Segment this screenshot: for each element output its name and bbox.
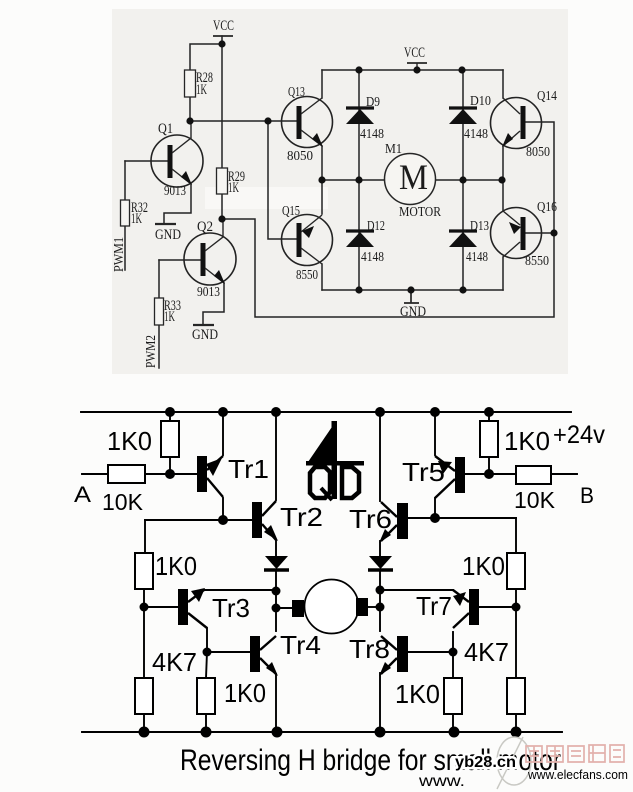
wire Q16 emitter up [502, 180, 504, 211]
ground GND of bridge [400, 290, 426, 320]
wire VCC stub to R28 [190, 36, 222, 70]
wire Tr4 base lead [207, 651, 250, 653]
wire Tr8 emitter to rail [379, 673, 381, 732]
resistor 10K input B [514, 466, 556, 513]
transistor Tr8 [349, 634, 408, 676]
watermark circle [497, 737, 531, 785]
svg-text:D13: D13 [470, 219, 489, 234]
wire Tr6 base line [408, 517, 516, 519]
transistor Q2 9013 [184, 219, 236, 300]
resistor 1K0 left outer [135, 551, 197, 589]
svg-text:1K: 1K [196, 82, 207, 98]
transistor Q15 8550 [282, 204, 333, 283]
svg-text:Tr3: Tr3 [212, 593, 250, 623]
wire down to right outer 1K0 [515, 518, 517, 553]
transistor Tr7 [416, 589, 479, 628]
svg-text:Q1: Q1 [158, 121, 173, 137]
VCC supply top-left [213, 18, 234, 36]
wire diode to motor node right [379, 571, 381, 631]
wire Tr6 collector to rail [379, 412, 381, 501]
wire diode D12 branch [358, 180, 360, 290]
wire diode D9 branch [358, 70, 360, 180]
svg-text:1K0: 1K0 [224, 678, 266, 708]
wire +24v top rail [81, 411, 571, 413]
svg-text:M: M [399, 157, 428, 197]
svg-text:+24v: +24v [553, 421, 605, 449]
wire Q14 collector [502, 70, 504, 98]
resistor 1K0 mid right [395, 678, 462, 714]
svg-text:D10: D10 [470, 94, 491, 109]
wire mid-right 1K0 column [452, 652, 454, 732]
svg-text:VCC: VCC [213, 18, 234, 34]
node junction dots of bottom schematic [139, 407, 522, 738]
diode right [368, 556, 393, 570]
resistor R33 1K [155, 298, 182, 325]
diode D10 4148 [449, 94, 491, 142]
motor M1 [385, 142, 442, 220]
faded watermark patch [205, 187, 328, 209]
svg-text:PWM1: PWM1 [112, 237, 127, 272]
resistor 1K0 left bias [107, 421, 179, 457]
wire Q1 emitter to ground [164, 184, 191, 224]
wire input A to Tr1 base [82, 473, 197, 475]
svg-text:www.elecfans.com: www.elecfans.com [527, 767, 628, 782]
transistor Q13 8050 [282, 85, 333, 164]
svg-text:VCC: VCC [404, 45, 425, 61]
wire Q2 collector to right bases net [223, 122, 554, 317]
svg-text:1K: 1K [228, 180, 239, 196]
svg-text:Tr5: Tr5 [402, 457, 445, 487]
wire Tr2 emitter to diode [275, 540, 277, 556]
wire node to Q15 base [268, 121, 297, 239]
wire bottom 0v rail [82, 731, 562, 733]
watermark red glyphs [526, 745, 624, 762]
diode D13 4148 [449, 219, 489, 265]
svg-text:Q13: Q13 [288, 85, 305, 100]
transistor Tr3 [178, 588, 250, 628]
svg-text:D9: D9 [366, 95, 380, 110]
svg-text:M1: M1 [385, 142, 402, 157]
wire mid-left 1K0 column [206, 652, 207, 732]
svg-text:1K0: 1K0 [462, 551, 505, 581]
svg-text:10K: 10K [514, 487, 556, 513]
svg-text:1K0: 1K0 [107, 426, 152, 456]
wire Tr6 emitter to diode [379, 541, 381, 556]
wire Q13 emitter to left motor rail [321, 146, 323, 180]
wire Q13 collector [321, 70, 323, 98]
svg-text:Q2: Q2 [197, 219, 213, 235]
wire Q2 emitter to ground [203, 283, 224, 325]
svg-text:Tr8: Tr8 [349, 634, 390, 664]
wire diode to motor node left [275, 571, 277, 631]
svg-text:yb28.cn: yb28.cn [455, 754, 516, 771]
resistor 1K0 mid left [197, 678, 266, 714]
resistor 4K7 left [135, 647, 197, 714]
svg-text:Tr7: Tr7 [416, 591, 452, 621]
svg-text:A: A [74, 482, 91, 507]
svg-text:8050: 8050 [526, 145, 550, 160]
wire VCC node down to R29 [221, 44, 223, 168]
wire rail to right bias 1K0 [488, 412, 490, 474]
svg-text:GND: GND [192, 327, 218, 343]
resistor R28 1K [185, 70, 214, 98]
svg-text:4148: 4148 [464, 127, 488, 142]
diode D9 4148 [346, 95, 384, 142]
svg-text:Tr4: Tr4 [280, 630, 321, 660]
svg-text:Tr1: Tr1 [228, 454, 269, 484]
ground GND of Q1 [155, 224, 181, 243]
wire right 4K7 to rail [515, 714, 517, 732]
wire R28 to Q1 collector node [189, 97, 191, 121]
svg-text:9013: 9013 [164, 184, 186, 199]
ground GND of Q2 [192, 325, 218, 343]
wire Tr7 collector line [380, 589, 453, 591]
svg-text:4148: 4148 [466, 250, 488, 265]
svg-text:4148: 4148 [361, 250, 384, 265]
wire Tr2 collector to rail [275, 412, 277, 500]
motor [292, 580, 368, 634]
transistor Q16 8550 [491, 200, 558, 269]
svg-text:1K: 1K [164, 309, 175, 325]
svg-text:Q14: Q14 [537, 89, 557, 104]
transistor Q14 8050 [491, 89, 558, 160]
diode D12 4148 [346, 219, 385, 265]
svg-text:8550: 8550 [296, 268, 318, 283]
wire Tr7 emitter down [452, 632, 454, 652]
wire right outer column [515, 589, 517, 678]
wire left outer column [143, 589, 145, 678]
svg-text:Q15: Q15 [282, 204, 300, 219]
resistor 4K7 right [464, 637, 525, 714]
svg-text:Tr6: Tr6 [349, 504, 392, 534]
resistor 10K input A [102, 465, 145, 515]
wire Tr3 emitter down [206, 628, 208, 652]
wire Tr3 collector line [203, 589, 276, 591]
wire R29 to Q2 collector node [221, 193, 223, 219]
diode left [264, 556, 289, 570]
svg-text:MOTOR: MOTOR [399, 205, 442, 220]
svg-text:8550: 8550 [525, 254, 549, 269]
svg-text:9013: 9013 [197, 285, 220, 300]
transistor Tr5 [402, 456, 465, 498]
svg-text:1K0: 1K0 [395, 679, 440, 709]
wire bottom GND rail of bridge [322, 289, 503, 291]
svg-text:GND: GND [400, 304, 426, 320]
wire R33 to PWM2 input [158, 325, 160, 368]
wire Tr1 collector down [222, 498, 224, 520]
wire Q16 base lead [525, 232, 554, 234]
wire diode D13 branch [462, 180, 464, 290]
wire Tr2 base line [145, 519, 252, 521]
svg-text:4K7: 4K7 [464, 637, 509, 667]
node junction dots of top schematic [186, 40, 557, 293]
wire left 4K7 to rail [143, 714, 145, 732]
resistor 1K0 right outer [462, 551, 525, 589]
transistor Q1 9013 [151, 121, 203, 199]
wire motor node to left pad [276, 607, 292, 609]
svg-text:Q16: Q16 [537, 200, 557, 215]
svg-text:4148: 4148 [360, 127, 384, 142]
wire diode D10 branch [462, 70, 464, 180]
svg-text:8050: 8050 [287, 149, 313, 164]
wire Q1 base lead [125, 160, 168, 162]
wire left motor rail [322, 179, 384, 181]
resistor R32 1K [121, 200, 149, 227]
scan background of top schematic [112, 9, 568, 374]
wire Tr5 emitter to rail [434, 412, 436, 455]
wire Tr4 emitter to rail [275, 674, 277, 732]
svg-text:www.: www. [418, 773, 465, 790]
transistor Tr2 [252, 501, 323, 541]
wire Tr1 emitter to rail [222, 412, 224, 455]
wire Tr7 base lead [479, 606, 516, 608]
svg-text:GND: GND [155, 227, 181, 243]
wire Q14 emitter to right motor rail [502, 146, 504, 180]
wire Tr3 base lead [144, 606, 178, 608]
VCC supply of bridge [404, 45, 427, 70]
svg-text:1K: 1K [131, 211, 142, 227]
wire R32 to PWM1 input [124, 226, 126, 270]
wire Tr8 base lead [408, 651, 453, 653]
wire top VCC rail of bridge [322, 69, 503, 71]
svg-text:10K: 10K [102, 489, 144, 515]
wire Q16 collector down [502, 257, 504, 290]
wire Q15 collector down [321, 264, 323, 290]
wire Tr5 collector down [434, 498, 436, 518]
wire Q1 collector rail to Q13 base [190, 120, 297, 122]
wire Q2 base lead [159, 259, 201, 261]
wire input B to Tr5 base [465, 473, 577, 475]
wire right motor rail [435, 179, 503, 181]
transistor Tr1 [197, 454, 269, 497]
wire Q15 emitter up [321, 180, 323, 214]
svg-text:1K0: 1K0 [155, 551, 197, 581]
svg-text:D12: D12 [367, 219, 385, 234]
resistor R29 1K [217, 168, 246, 196]
wire motor node to right pad [368, 606, 380, 608]
transistor Tr4 [250, 630, 321, 676]
svg-text:4K7: 4K7 [152, 647, 197, 677]
wire rail to left bias 1K0 [169, 412, 171, 474]
logo 4QD [306, 421, 364, 500]
svg-text:1K0: 1K0 [504, 426, 550, 456]
resistor 1K0 right bias [480, 421, 550, 457]
svg-text:Tr2: Tr2 [280, 502, 323, 532]
wire Q2 base to R33 [158, 260, 160, 298]
wire Q1 base to R32 [124, 161, 126, 200]
svg-text:PWM2: PWM2 [144, 335, 159, 368]
wire down to left outer 1K0 [144, 520, 146, 553]
svg-text:B: B [580, 483, 594, 508]
transistor Tr6 [349, 502, 408, 543]
